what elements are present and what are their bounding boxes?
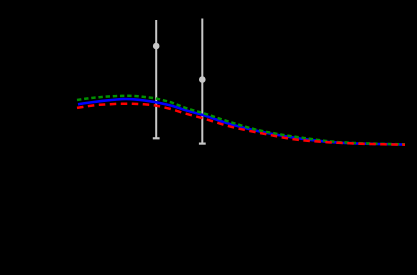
error bar 2 marker bbox=[199, 76, 206, 83]
red dashed curve bbox=[77, 104, 405, 145]
error bar 1 marker bbox=[153, 43, 160, 50]
error bar 1 bottom cap bbox=[153, 137, 160, 139]
error bar 1 vertical line bbox=[155, 20, 157, 138]
error bar 2 vertical line bbox=[201, 19, 203, 144]
green dashed curve bbox=[77, 96, 405, 145]
blue solid curve bbox=[78, 99, 405, 145]
error bar 2 bottom cap bbox=[199, 143, 206, 145]
